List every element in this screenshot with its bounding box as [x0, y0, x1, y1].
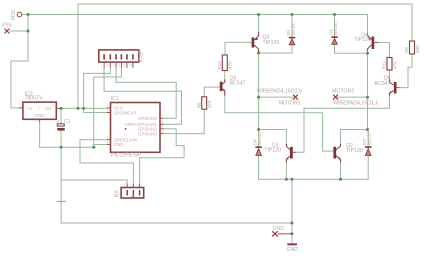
wire left ground rail y=147.3 [40, 146, 96, 148]
wire IC1 GND drop [93, 145, 95, 148]
wire ICSP pin1 to y=91.2 line [103, 69, 105, 91]
wire regulator GND pin down [39, 122, 41, 147]
transistor Q2 TIP120 [333, 143, 362, 162]
diode D1 BA157 [286, 21, 296, 45]
wire ICSP pin6 stub [132, 64, 134, 68]
wire D2 top to VDD rail [334, 15, 336, 37]
wire D3 bottom to ground rail [367, 156, 369, 179]
svg-text:+5 - S: +5 - S [123, 183, 133, 187]
transistor Q6 BC547 [375, 76, 400, 96]
svg-text:1: 1 [106, 104, 108, 108]
svg-text:R10: R10 [217, 61, 222, 70]
svg-text:VSS: VSS [2, 23, 13, 29]
wirepad MOTOR2 [332, 89, 378, 107]
wire VSS stub to column [10, 30, 28, 32]
wire motor2 node to Q2 collector [341, 130, 368, 145]
svg-text:2: 2 [35, 119, 37, 123]
svg-text:R8: R8 [196, 102, 201, 108]
svg-text:VDD: VDD [11, 9, 17, 20]
svg-text:BA157: BA157 [333, 21, 338, 35]
svg-text:GND: GND [273, 226, 285, 232]
wire Q5 emitter run to Q2 base [225, 96, 333, 152]
wire motor1 node to Q1 collector [259, 130, 287, 145]
svg-text:GND: GND [287, 247, 299, 253]
wire 5V line from regulator VO to IC1 VCC [60, 107, 107, 109]
svg-text:C1: C1 [64, 119, 71, 125]
wire R8 top to Q5 base [204, 87, 220, 97]
resistor R10 [217, 55, 233, 71]
svg-text:VO: VO [45, 106, 52, 111]
wire IC1 GND pin to rail [94, 144, 107, 146]
transistor Q1 TIP120 [264, 142, 296, 162]
wire ground branch to connector pin1 [61, 180, 127, 188]
svg-text:BA157: BA157 [257, 131, 262, 145]
svg-text:WIREPAD4,16O1,6: WIREPAD4,16O1,6 [257, 89, 302, 95]
wire R11 bottom to Q6 collector [389, 70, 391, 80]
svg-text:6: 6 [162, 120, 164, 124]
svg-text:5: 5 [124, 64, 126, 68]
wire motor1 pad stub [259, 96, 293, 98]
wire D2 bottom to Q4 collector node [335, 44, 368, 53]
svg-text:GP3/MCLR: GP3/MCLR [114, 110, 138, 115]
svg-text:MOTOR1: MOTOR1 [279, 101, 301, 107]
wirepad MOTOR1 [257, 89, 302, 107]
svg-text:GP4/AN3: GP4/AN3 [138, 131, 158, 136]
svg-text:6: 6 [130, 64, 132, 68]
wire Q1 emitter to rail [285, 162, 287, 179]
wire ground drop to GND symbols [291, 179, 293, 244]
svg-text:BC547: BC547 [375, 81, 391, 87]
svg-text:GND: GND [35, 113, 45, 118]
wire MCLR feed below 5V line [84, 108, 107, 112]
diode D4 BA157 [252, 131, 262, 156]
connector X1 [114, 183, 143, 198]
wire ICSP clock line y=91.2 [104, 91, 181, 124]
transistor Q3 TIP125 [252, 32, 280, 52]
svg-text:39K: 39K [415, 44, 420, 53]
svg-text:VI: VI [28, 106, 32, 111]
svg-text:5: 5 [162, 125, 164, 129]
svg-text:7: 7 [162, 114, 164, 118]
wire Q4 collector to node [367, 51, 369, 54]
resistor R9 [404, 41, 420, 54]
wire GP2 run to connector pin3 [140, 129, 185, 188]
wire C1 bottom to ground rail [60, 131, 62, 148]
wire ICSP pin2 to MCLR feed [84, 68, 111, 109]
svg-text:GP0/AN0: GP0/AN0 [138, 116, 158, 121]
wire motor2 pad stub [338, 96, 368, 98]
wire GP5 to connector pin2 [80, 139, 107, 141]
connector ICSP [99, 50, 145, 69]
wire Q2 emitter to rail [340, 162, 342, 179]
wire ground run down left side [60, 147, 62, 223]
svg-text:470: 470 [228, 61, 233, 69]
svg-text:TIP125: TIP125 [263, 40, 280, 46]
diode D2 BA157 [328, 21, 338, 45]
svg-text:BA157: BA157 [367, 131, 372, 145]
wire bridge ground rail y=179.2 [259, 178, 369, 180]
svg-text:RX: RX [114, 190, 120, 198]
wire motor1 vertical [258, 53, 260, 130]
svg-text:ICSP: ICSP [139, 50, 145, 63]
wire VDD rail y=14.5 [22, 14, 368, 16]
wire ICSP pin4 to ground rail [94, 68, 122, 145]
svg-text:3: 3 [162, 130, 164, 134]
svg-text:MOTOR2: MOTOR2 [332, 89, 354, 95]
wire C1 top connection [60, 108, 62, 123]
wire D4 bottom to ground rail [258, 156, 260, 179]
wire ICSP pin3 data line y=82.4 [116, 68, 176, 119]
wire Q3 base corner down [224, 42, 226, 55]
voltage regulator IC3 7805TV [19, 92, 60, 123]
svg-text:+: + [38, 106, 41, 111]
svg-text:TIP125: TIP125 [354, 37, 371, 43]
svg-text:4: 4 [106, 108, 108, 112]
svg-text:+: + [57, 119, 60, 125]
wire Q4 emitter from VDD rail [367, 15, 369, 34]
resistor R8 [196, 97, 212, 109]
transistor Q5 BC547 [220, 76, 246, 96]
wire D3 top connection [367, 130, 369, 147]
ground symbol GND [287, 243, 299, 252]
svg-text:3: 3 [113, 64, 115, 68]
svg-text:WIREPAD4,16O1,6: WIREPAD4,16O1,6 [333, 101, 378, 107]
svg-text:R11: R11 [382, 60, 387, 69]
wire Q1 base from Q6 emitter run [296, 95, 390, 152]
wire D4 top connection [258, 130, 260, 147]
wire ICSP pin5 stub [126, 64, 128, 68]
svg-text:TIP120: TIP120 [346, 148, 363, 154]
wire Q3 base to R10 [225, 41, 252, 43]
wire Q3 collector to node [258, 52, 260, 54]
wire 5V top loop left vertical [77, 4, 79, 108]
svg-text:1: 1 [20, 104, 22, 108]
svg-text:1: 1 [101, 64, 103, 68]
microcontroller IC1 PIC12F675P [106, 96, 163, 159]
wire GP5 run down [80, 140, 133, 188]
wire Q6 base to R9 bottom [400, 54, 413, 88]
wire Q3 emitter to VDD rail [258, 15, 260, 33]
svg-text:IC3: IC3 [25, 92, 33, 98]
wire 5V top loop horizontal y=4 [78, 3, 412, 5]
svg-text:GND: GND [114, 142, 125, 147]
wire GP4 to R8 bottom [164, 109, 205, 133]
svg-text:3: 3 [53, 104, 55, 108]
svg-text:IC1: IC1 [111, 96, 119, 102]
wire Q4 base to R11 [378, 43, 390, 58]
svg-text:470: 470 [392, 61, 397, 69]
svg-text:4: 4 [118, 64, 120, 68]
capacitor C1 [57, 119, 71, 131]
wire D1 top to VDD rail [291, 15, 293, 37]
svg-text:BA157: BA157 [290, 21, 295, 35]
wire top loop right vertical to R9 [411, 4, 413, 41]
svg-text:22K: 22K [207, 99, 212, 108]
resistor R11 [382, 58, 398, 71]
wire Q5 collector to R10 bottom [224, 71, 226, 80]
svg-text:TIP120: TIP120 [264, 148, 281, 154]
wire ground run bottom y=223 [61, 222, 292, 224]
svg-text:R9: R9 [404, 47, 409, 53]
wire motor2 vertical [367, 53, 369, 129]
svg-text:2: 2 [107, 64, 109, 68]
wire VDD column down to regulator input [11, 15, 28, 108]
svg-text:BC547: BC547 [230, 81, 246, 87]
svg-text:8: 8 [106, 140, 108, 144]
origin cross [57, 200, 66, 202]
supply VSS [2, 23, 13, 34]
svg-text:2: 2 [106, 136, 108, 140]
wire D1 bottom to Q3 collector node [259, 45, 292, 53]
diode D3 BA157 [362, 131, 372, 156]
svg-text:PIC12F675P: PIC12F675P [111, 153, 141, 159]
transistor Q4 TIP125 [354, 33, 378, 51]
supply VDD [11, 9, 22, 20]
ground flag GND [272, 226, 292, 236]
